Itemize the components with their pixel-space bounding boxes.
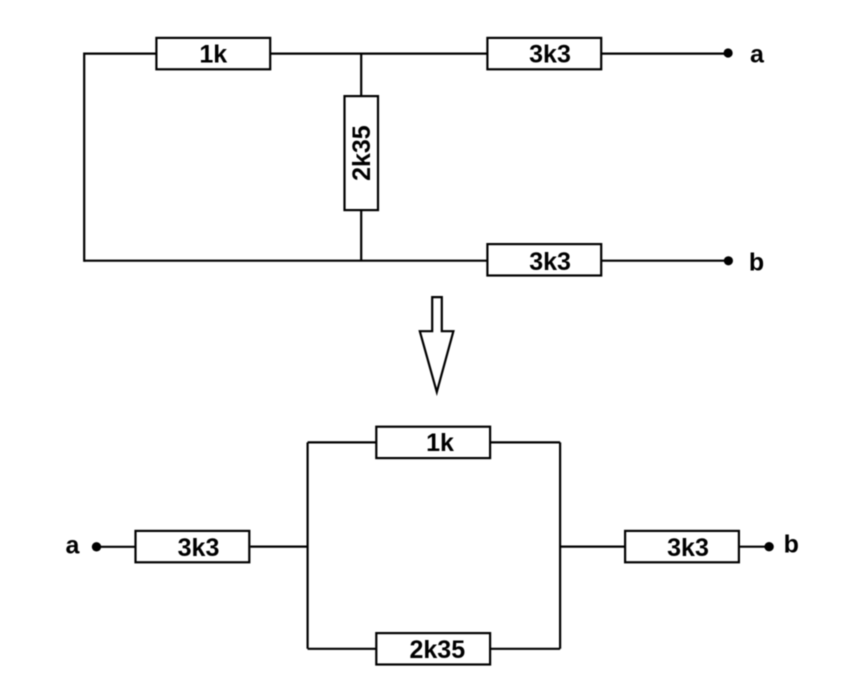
- svg-text:2k35: 2k35: [409, 636, 465, 664]
- wire: parallel block to right 3k3: [560, 545, 624, 547]
- svg-text:b: b: [784, 530, 799, 558]
- svg-text:3k3: 3k3: [529, 40, 571, 68]
- svg-text:a: a: [66, 532, 81, 560]
- resistor 3k3 (bottom right): [625, 531, 739, 562]
- wire: top branch horizontals: [308, 441, 560, 443]
- resistor 2k35 (bottom circuit, bottom branch): [376, 633, 490, 664]
- resistor 1k (bottom circuit, top branch): [376, 427, 490, 458]
- svg-text:1k: 1k: [199, 40, 227, 68]
- wire: parallel block left vertical: [307, 442, 309, 648]
- svg-text:3k3: 3k3: [529, 248, 571, 276]
- wire: middle vertical through R 2k35: [360, 54, 362, 261]
- wire: right 3k3 to dot b: [740, 546, 769, 548]
- svg-text:3k3: 3k3: [667, 534, 709, 562]
- terminal dot b (bottom): [764, 542, 773, 551]
- wire: bottom branch horizontal: [308, 648, 560, 650]
- resistor 3k3 (bottom row, to b): [487, 244, 601, 275]
- wire: bottom horizontal (node b row): [84, 260, 728, 262]
- terminal dot a (bottom): [92, 542, 101, 551]
- svg-text:a: a: [750, 40, 765, 68]
- resistor 3k3 (top, to a): [487, 38, 601, 69]
- wire: dot a to left 3k3: [97, 546, 136, 548]
- svg-text:b: b: [749, 249, 764, 277]
- svg-text:2k35: 2k35: [348, 125, 376, 181]
- terminal dot b (top circuit): [724, 256, 733, 265]
- resistor 3k3 (bottom left): [136, 531, 250, 562]
- svg-text:1k: 1k: [426, 429, 454, 457]
- wire: parallel block right vertical: [559, 442, 561, 648]
- wire: top horizontal (node a row): [84, 52, 728, 54]
- svg-text:3k3: 3k3: [178, 534, 220, 562]
- terminal dot a (top): [724, 48, 733, 57]
- wire: left vertical: [83, 53, 85, 262]
- wire: left 3k3 to parallel block: [250, 545, 307, 547]
- resistor 2k35 (vertical): [345, 96, 379, 210]
- resistor 1k (top): [156, 38, 270, 69]
